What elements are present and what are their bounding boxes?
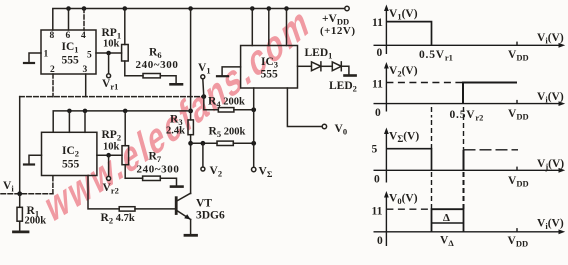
node dot V1 on rail A [201,94,206,99]
resistor R6 [143,74,160,78]
svg-text:Vi(V): Vi(V) [537,91,564,105]
svg-text:(+12V): (+12V) [320,25,356,37]
svg-text:V1(V): V1(V) [389,8,418,22]
resistor R5 [217,141,233,145]
wire R6 to ground [160,76,176,84]
panel2 V2 axes [385,65,387,112]
panel1 VDD tick [516,42,518,46]
node dot RP2 top [123,109,128,114]
node dot IC3 pin c [284,6,289,11]
node dot Vi junction [17,191,22,196]
panel4 V0 pulse box [432,209,464,232]
node dot R4 sum [251,107,256,112]
panel2 V2 dashed level [386,82,463,84]
ground LED [345,74,356,77]
svg-text:0: 0 [374,174,380,186]
svg-text:Vj(V): Vj(V) [537,158,564,172]
node dot IC2 pin6 [67,109,72,114]
resistor R1 [19,194,21,208]
panel1 V1 pulse [386,22,431,46]
panel4 inner line [432,222,464,224]
wire IC1 pin4 [83,9,85,31]
node Vr2 terminal [107,176,111,180]
svg-text:6: 6 [66,31,71,41]
wire IC3 output to V0 [287,88,322,127]
potentiometer RP1 [124,9,126,45]
wire V2 riser [202,143,204,167]
svg-text:4: 4 [81,31,86,41]
wire IC1 pin3 down [85,74,87,97]
trigger pulse symbol IC2 pin1 [24,163,34,165]
wire IC3 to LED1 [298,65,312,67]
node dot IC3 pin a [250,6,255,11]
svg-text:R4 200k: R4 200k [208,96,245,110]
node dot pin6 IC1 [66,6,71,11]
wire IC2 pin5 to RP2 [97,154,122,156]
svg-text:1: 1 [44,50,49,60]
panel4 VDD tick [516,228,518,232]
wire R4 to sum node [234,109,254,111]
node V0 terminal [322,124,326,128]
node V1 terminal [201,75,205,79]
panel3 VDD tick [516,167,518,171]
wire IC1 pin6 [68,9,70,31]
wire IC1 pin5 to RP1 [96,52,122,54]
wire rail A Vi to pin2/pin3 out [20,96,204,98]
wire R7 to ground [160,178,176,186]
svg-text:VT: VT [196,198,212,210]
svg-text:3: 3 [83,65,88,75]
svg-text:5: 5 [372,144,378,156]
wire IC1 pin2 down [52,74,54,97]
node dot Vr2 tap [106,153,111,158]
diode LED1 [312,62,321,71]
svg-text:Δ: Δ [443,212,450,224]
svg-text:555: 555 [62,159,80,171]
trigger pulse symbol IC1 pin1 [24,62,34,64]
node dot pin4 IC1 [82,6,87,11]
panel2 VDD tick [516,100,518,104]
trigger pulse symbol IC3 [217,75,228,77]
wire IC2 pin3 to R2 [88,176,119,209]
transistor VT collector [177,193,191,201]
op IC1 555 box [41,30,96,74]
svg-text:V2(V): V2(V) [389,65,418,79]
transistor VT base bar [175,198,178,214]
svg-text:V0(V): V0(V) [389,192,418,206]
node V2 terminal [201,167,205,171]
ground VT emitter [185,234,197,237]
node dot V2 tap [201,141,206,146]
svg-text:240~300: 240~300 [136,59,179,71]
resistor R7 [143,176,161,180]
dashed align x431 panel2-3 [431,120,433,149]
svg-text:10k: 10k [103,39,120,50]
waveform panels [374,5,566,247]
wire LED1 to LED2 [321,65,332,67]
panel3 Vsigma waveform [386,149,431,171]
node dot rail B end [188,109,193,114]
watermark www.elecfans.com [41,0,314,232]
ground R6 [171,83,183,86]
panel4 V0 axes [385,194,387,247]
svg-text:Vi(V): Vi(V) [537,218,564,232]
svg-text:0: 0 [375,107,381,119]
circuit text labels [3,13,357,227]
svg-text:200k: 200k [25,216,47,227]
panel2 V2 rise and level [463,83,517,104]
svg-text:11: 11 [372,17,383,29]
wire Vr2 riser [108,155,110,176]
svg-text:555: 555 [261,69,279,81]
wire RP1 to R6 [125,75,143,77]
node Vsigma terminal [252,167,256,171]
node dot R5 sum [251,141,256,146]
dashed align x463 panel2-3 [463,107,465,150]
wire Vi input line [1,193,53,195]
wire IC2 pin4 [84,111,86,132]
wire RP2 to R7 [125,177,142,179]
node dot IC2 pin4 [83,109,88,114]
svg-text:0: 0 [377,47,383,59]
wire R5 to sum [233,142,253,144]
svg-text:2: 2 [50,65,55,75]
ground R7 [171,185,183,188]
node dot IC3 pin b [267,6,272,11]
waveform text labels [372,8,565,249]
panel1 V1 axes [385,7,387,54]
diode LED2 [332,62,341,71]
pin numbers IC1 [44,31,93,75]
op IC2 555 box [42,132,97,175]
svg-text:2.4k: 2.4k [166,126,185,137]
dashed align below panel3 [431,172,433,209]
ground R1 [14,230,29,233]
panel3 Vsigma axes [385,130,387,183]
svg-text:8: 8 [50,31,55,41]
wire rail B [53,111,190,132]
wire IC2 pin2 riser [52,176,54,194]
svg-text:11: 11 [372,79,383,91]
wire LED2 to ground [341,66,349,74]
potentiometer RP2 [124,111,126,146]
wire R5 row [191,142,217,144]
top VDD rail [53,9,345,31]
op IC3 555 box [241,46,298,89]
wire R3 to collector [190,135,192,194]
svg-text:0: 0 [377,235,383,247]
svg-text:VΣ(V): VΣ(V) [389,131,419,145]
wire V1 riser to R4 [203,79,219,110]
transistor VT emitter [177,211,191,220]
wire IC3 top pins [251,9,253,46]
wire R2 to base [135,208,175,210]
wire VDD branch to R3 [190,9,192,120]
node dot RP1 top [123,6,128,11]
svg-text:11: 11 [372,206,383,218]
wire IC2 pin6 [68,111,70,132]
wire Vr1 riser [108,53,110,74]
node Vr1 terminal [107,74,111,78]
node dot collector branch [188,141,193,146]
wire sum column [253,88,255,167]
dashed align x431 panel2 [431,107,433,118]
svg-text:10k: 10k [103,142,120,153]
svg-text:R2 4.7k: R2 4.7k [101,212,135,226]
svg-text:240~300: 240~300 [137,164,180,176]
wire Vi riser [19,97,21,194]
resistor R4 [218,108,234,112]
VDD terminal [345,6,349,10]
svg-text:Vi(V): Vi(V) [537,32,564,46]
resistor R3 [188,120,193,135]
node dot R3 branch [188,6,193,11]
resistor R2 [119,207,135,211]
panel4 V0 dashed level [386,208,431,210]
node dot Vr1 tap [106,51,111,56]
svg-text:3DG6: 3DG6 [196,210,225,222]
svg-text:555: 555 [62,55,80,67]
svg-text:R5 200k: R5 200k [209,126,246,140]
svg-text:5: 5 [87,51,92,61]
